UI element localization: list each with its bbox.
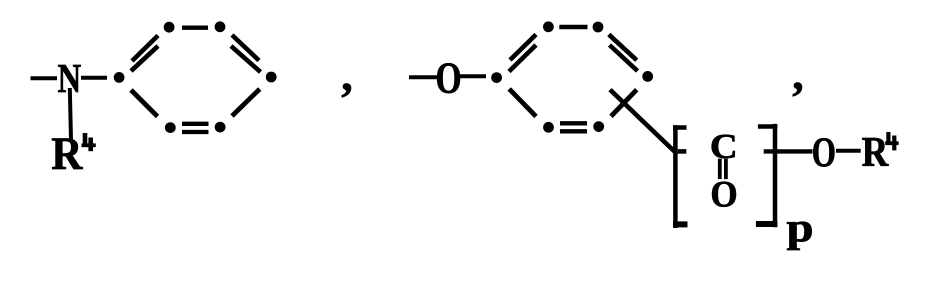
ring 1 vertex dot BL <box>165 122 176 133</box>
superscript 4 of right R4 <box>885 132 898 150</box>
ring 2 double bond BR-BL (bottom) <box>560 123 587 131</box>
svg-text:,: , <box>792 48 804 99</box>
ring 2 single bond R-BR (partial, crossed) <box>611 90 637 117</box>
ring 2 vertex dot TR <box>593 22 604 33</box>
bond N to R4 (vertical) <box>70 88 71 140</box>
ring 1 double bond L-TL <box>131 36 158 72</box>
svg-text:O: O <box>436 53 462 103</box>
ring 2 vertex dot R <box>642 71 653 82</box>
ring 2 double bond TR-R <box>609 35 638 72</box>
ring 2 vertex dot L <box>491 72 502 83</box>
double bond C=O (vertical) <box>720 159 726 179</box>
ring 1 vertex dot BR <box>215 122 226 133</box>
bond bracket to O (crosses bracket) <box>764 149 813 153</box>
ring 1 vertex dot TL <box>164 22 175 33</box>
ring 2 single bond TL-TR (top dash) <box>559 25 587 29</box>
ring 2 vertex dot BL <box>543 122 554 133</box>
left square bracket <box>673 125 688 228</box>
svg-text:,: , <box>341 49 353 100</box>
svg-text:O: O <box>710 174 737 215</box>
svg-text:O: O <box>812 130 836 177</box>
ring 1 double bond BR-BL (bottom) <box>182 124 209 132</box>
ring 1 double bond TR-R <box>231 35 261 72</box>
svg-text:R: R <box>51 128 83 180</box>
svg-text:p: p <box>786 204 813 250</box>
bond N to ring vertex <box>81 76 107 80</box>
ring 2 single bond BL-L <box>509 89 536 117</box>
ring 1 single bond R-BR <box>232 89 260 116</box>
ring 2 double bond L-TL <box>509 35 536 72</box>
ring 1 single bond BL-L <box>131 90 158 117</box>
bond stub bracket to C <box>678 149 687 154</box>
svg-text:C: C <box>710 127 738 166</box>
bond O to ring 2 vertex <box>460 74 486 78</box>
ring 1 vertex dot L <box>114 72 125 83</box>
svg-text:R: R <box>862 127 890 175</box>
bond: left terminal dash of structure 2 <box>409 75 437 79</box>
ring 1 vertex dot R <box>266 72 277 83</box>
ring 2 vertex dot BR <box>593 121 604 132</box>
bond ring 2 to carbonyl group (crossing diagonal) <box>610 90 675 152</box>
bond: left terminal dash of structure 1 <box>31 76 58 80</box>
superscript 4 of R4 <box>82 133 96 151</box>
ring 1 vertex dot TR <box>215 21 226 32</box>
right square bracket <box>756 124 778 227</box>
bond O to R4 <box>836 149 861 153</box>
ring 1 single bond TL-TR (top dash) <box>182 26 208 30</box>
ring 2 vertex dot TL <box>543 21 554 32</box>
